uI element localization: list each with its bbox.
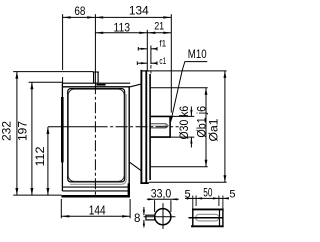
shaft bottom edge	[150, 136, 170, 138]
dimension 8 bottom segment	[143, 220, 145, 228]
dimension 197 line	[31, 82, 33, 195]
gusset slope to flange	[130, 162, 141, 170]
diameter b1 arrows	[205, 88, 208, 95]
dimension 5-50-5 line	[185, 197, 228, 199]
dimension 232 line	[16, 72, 18, 195]
vent plug left prong	[93, 72, 95, 83]
body left edge thick segment	[61, 97, 64, 162]
key view rect right edge	[222, 209, 224, 228]
flange top edge	[140, 70, 149, 72]
dimension f1 left arrow	[138, 48, 147, 50]
dimension c1 left arrow	[137, 62, 147, 64]
f1 right extension line	[150, 46, 152, 65]
b1 top extension line	[150, 87, 208, 89]
dimension 21 line	[147, 32, 171, 34]
diameter a1 arrows	[224, 71, 227, 78]
extension tick above body corner	[62, 77, 64, 83]
flange face extension line	[146, 30, 148, 71]
key view rect top edge	[192, 208, 224, 210]
svg-text:68: 68	[74, 6, 85, 18]
dimension 197 top extension	[29, 81, 63, 83]
svg-text:112: 112	[33, 146, 47, 166]
M10 leader line	[171, 62, 185, 122]
svg-text:113: 113	[114, 22, 131, 34]
dimension 8 top segment	[143, 207, 145, 215]
svg-text:f1: f1	[159, 38, 166, 48]
body left edge	[61, 83, 63, 191]
dimension 134 arrows	[95, 16, 103, 18]
a1 bottom extension line	[149, 181, 227, 183]
diameter 30 dim line bottom segment	[190, 137, 192, 147]
dimension 112 arrows	[46, 127, 49, 134]
svg-text:Øa1: Øa1	[208, 119, 220, 142]
vent plug right prong	[97, 72, 99, 83]
key view rect bottom edge	[191, 225, 224, 227]
a1 top extension line	[150, 70, 227, 72]
horizontal centerline solid part (112 extension)	[48, 126, 96, 128]
M10 tapped hole bottom line	[151, 127, 166, 129]
body bottom line 2	[62, 190, 128, 192]
body right edge thick lower segment	[128, 183, 130, 197]
dimension 33,0 line	[147, 198, 179, 200]
shaft top edge	[150, 115, 170, 117]
dimension 68 arrows	[63, 16, 71, 18]
33,0 right extension	[170, 200, 172, 212]
dimension 68 left extension	[62, 14, 64, 70]
shaft bottom extension line	[150, 136, 194, 138]
key view rect left edge	[192, 209, 194, 228]
svg-text:21: 21	[154, 21, 164, 33]
body right edge	[128, 87, 130, 197]
b1 bottom extension line	[150, 166, 208, 168]
body top edge	[62, 82, 130, 84]
flange back face	[140, 70, 142, 183]
M10 hole thread mid line	[151, 125, 165, 127]
dimension 144 arrows	[61, 215, 69, 217]
foot base plate thick	[61, 195, 129, 198]
key view shaft end chamfer line	[219, 209, 221, 226]
spigot hidden extension dashes	[150, 65, 152, 74]
svg-text:134: 134	[129, 4, 149, 18]
svg-text:5: 5	[229, 188, 235, 200]
body top second edge	[62, 86, 130, 88]
M10 hole shoulder	[165, 124, 167, 128]
dimension 50 arrows	[196, 197, 202, 199]
bolt faces and centering spigot face	[149, 74, 151, 180]
body neck slope top	[130, 84, 140, 87]
diameter a1 dim line	[224, 71, 226, 182]
svg-text:5: 5	[185, 188, 191, 200]
svg-text:50: 50	[203, 187, 212, 199]
dimension 134 line	[95, 16, 171, 18]
svg-text:c1: c1	[159, 56, 166, 66]
M10 label underline	[185, 61, 208, 63]
vent plug cap	[93, 71, 99, 73]
dimension 144 left extension	[60, 199, 62, 218]
svg-text:Ø30 k6: Ø30 k6	[179, 106, 191, 140]
baseline extension left	[13, 194, 61, 196]
dimension 33,0 arrows	[148, 198, 155, 200]
M10 hole drill tip	[166, 124, 168, 128]
dimension 5 right outside arrow	[223, 197, 229, 199]
svg-text:197: 197	[16, 121, 30, 141]
dimension 113 arrows	[95, 32, 103, 34]
33,0 left extension	[154, 200, 156, 212]
dimension 5 left outside arrow	[187, 197, 193, 199]
vertical centerline extension solid	[94, 14, 96, 83]
housing cover gray shadow	[70, 94, 126, 184]
5-50-5 extension ticks	[192, 196, 194, 209]
shaft section vertical centerline	[162, 203, 164, 229]
diameter b1 dim line	[205, 88, 207, 167]
keyway slot stadium	[196, 214, 219, 221]
shaft section horizontal centerline	[144, 216, 176, 218]
dimension 232 arrows	[15, 72, 18, 79]
horizontal centerline dash-dot	[96, 126, 179, 128]
svg-text:8: 8	[134, 213, 140, 225]
key view centerline	[189, 217, 223, 219]
dimension 21 arrows	[147, 32, 155, 34]
protruding key rect	[146, 215, 155, 220]
shaft top extension line	[171, 115, 195, 117]
dimension c1 right arrow	[151, 62, 157, 64]
housing cover rounded rect	[68, 89, 125, 182]
dimension 144 line	[61, 215, 130, 217]
dimension 144 right extension	[129, 199, 131, 218]
dimension 68 line	[63, 16, 96, 18]
svg-text:144: 144	[89, 204, 106, 218]
dimension 112 line	[47, 127, 49, 195]
dimension 232 top extension	[13, 71, 93, 73]
vertical centerline dash-dot	[94, 83, 96, 195]
dimension f1 right arrow	[151, 48, 157, 50]
nameplate boss on top edge	[96, 84, 105, 86]
shaft section circle	[155, 209, 171, 225]
diameter 30 dim line top segment	[190, 107, 192, 117]
shaft end extension line	[170, 14, 172, 112]
M10 tapped hole top line	[151, 123, 166, 125]
svg-text:33,0: 33,0	[151, 187, 172, 201]
dimension 197 arrows	[30, 82, 33, 89]
svg-text:M10: M10	[188, 49, 207, 61]
shaft end face	[169, 116, 171, 137]
flange front face	[145, 70, 147, 183]
flange bottom edge	[140, 182, 148, 184]
svg-text:232: 232	[0, 121, 13, 141]
dimension 113 line	[95, 32, 147, 34]
svg-text:Øb1 j6: Øb1 j6	[196, 106, 208, 138]
housing cover inner edge	[68, 89, 124, 181]
body bottom line 1	[63, 186, 129, 188]
